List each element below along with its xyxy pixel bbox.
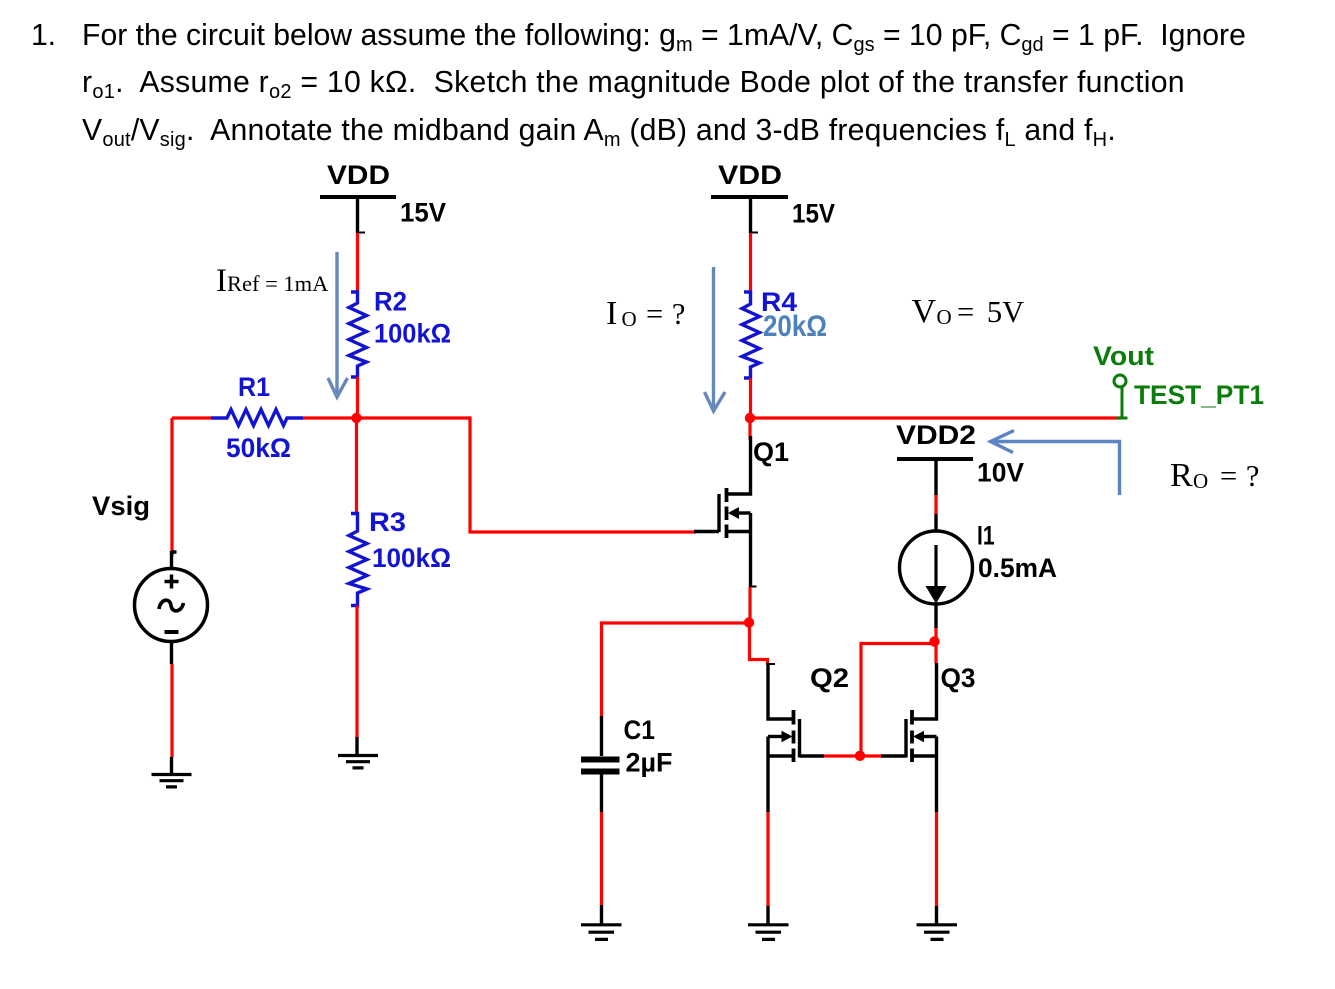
ground (C1) <box>581 925 622 940</box>
svg-text:I1: I1 <box>977 521 995 551</box>
Q1 source pin tick <box>751 586 757 588</box>
wire node C to Q2 drain <box>750 623 768 665</box>
Q2 source vertical <box>766 737 769 813</box>
wire VDD1 to R2 <box>356 233 359 292</box>
ground lead (C1) <box>600 905 603 924</box>
Q2 source lead <box>768 754 793 757</box>
resistor R4 <box>742 292 760 378</box>
ground lead (Q2) <box>766 906 769 924</box>
svg-text:V: V <box>912 293 937 330</box>
wire node B to Vout (output net) <box>750 416 1122 419</box>
capacitor C1 <box>581 716 620 812</box>
Q3 drain lead <box>913 663 937 719</box>
svg-text:Q3: Q3 <box>941 663 976 693</box>
svg-text:O: O <box>937 305 952 329</box>
Q1 bulk lead <box>738 511 751 514</box>
wire Q1 source to node C <box>748 587 751 622</box>
power symbol VDD2 bar <box>897 457 973 461</box>
wire R2 to node A <box>356 377 359 414</box>
wire R4 to node B <box>749 378 752 415</box>
svg-text:2µF: 2µF <box>626 748 673 778</box>
Q3 source vertical <box>935 737 938 813</box>
Q3 bulk arrow <box>913 731 924 743</box>
node C junction dot <box>744 617 754 627</box>
resistor R3 <box>349 514 367 606</box>
svg-text:VDD2: VDD2 <box>896 420 976 450</box>
Q2 drain pin tick <box>768 663 775 665</box>
transistor Q1 <box>694 436 757 587</box>
Q1 source vertical <box>749 513 752 587</box>
wire I1 to Q3 drain (node E) <box>934 628 937 663</box>
C1 top lead <box>600 716 603 756</box>
I1 top lead <box>934 514 937 531</box>
svg-text:Vsig: Vsig <box>92 491 150 521</box>
resistor R1 <box>211 410 303 426</box>
wire Q3 source to ground <box>935 812 938 906</box>
svg-text:Vout/Vsig. Annotate the midba: Vout/Vsig. Annotate the midband gain Am … <box>82 114 1116 151</box>
svg-text:15V: 15V <box>400 198 446 228</box>
svg-text:I: I <box>606 295 617 332</box>
Q1 bulk arrow <box>728 507 739 519</box>
svg-text:0.5mA: 0.5mA <box>978 553 1057 583</box>
I1 bottom lead <box>934 604 937 628</box>
output resistance arrow (RO) <box>991 431 1120 496</box>
svg-text:ro1. Assume ro2 = 10 kΩ. Ske: ro1. Assume ro2 = 10 kΩ. Sketch the magn… <box>82 66 1185 103</box>
svg-text:= ?: = ? <box>1220 459 1259 493</box>
node B junction dot <box>745 413 755 423</box>
Q2 channel segments <box>792 710 796 762</box>
svg-text:For the circuit below assume t: For the circuit below assume the followi… <box>82 19 1246 56</box>
svg-text:C1: C1 <box>624 715 656 745</box>
current source I1 circle <box>900 531 973 604</box>
current source I1 arrow <box>934 545 937 588</box>
svg-text:R1: R1 <box>238 372 270 402</box>
ground (Q2) <box>748 925 789 940</box>
svg-text:VDD: VDD <box>327 160 390 190</box>
svg-text:Q1: Q1 <box>753 437 789 467</box>
test point TEST_PT1 circle <box>1114 375 1126 387</box>
svg-text:= 5V: = 5V <box>957 295 1024 329</box>
wire VDD2 to I1 <box>934 495 937 514</box>
Q1 gate lead <box>694 530 719 533</box>
power symbol VDD (left) pin tick <box>357 232 365 234</box>
Q2 bulk lead <box>768 735 782 738</box>
wire node C to C1 <box>602 623 750 718</box>
wire C1 to ground <box>600 812 603 905</box>
power symbol VDD (left) bar <box>320 195 396 199</box>
current arrow IO <box>705 267 726 411</box>
wire node B to Q1 drain <box>748 418 751 440</box>
Q3 source lead <box>913 754 937 757</box>
svg-text:= ?: = ? <box>646 297 685 331</box>
wire R1 left lead <box>172 416 211 419</box>
svg-text:15V: 15V <box>792 199 835 229</box>
C1 plate 2 <box>581 769 620 775</box>
power symbol VDD (right) bar <box>711 195 788 199</box>
svg-text:100kΩ: 100kΩ <box>372 543 451 573</box>
wire R1 to Vsig <box>170 418 173 556</box>
power symbol VDD (right) stub <box>749 197 752 233</box>
ground (Vsig) <box>152 775 192 787</box>
node D junction dot <box>855 751 865 761</box>
transistor Q3 <box>881 663 937 812</box>
svg-text:Vout: Vout <box>1093 341 1154 371</box>
svg-text:O: O <box>1193 469 1208 493</box>
svg-text:1.: 1. <box>31 19 56 52</box>
wire VDD2sym to R4 <box>749 233 752 292</box>
Q2 gate lead <box>800 754 825 757</box>
svg-text:100kΩ: 100kΩ <box>374 319 451 349</box>
wire node A to Q1 gate <box>303 418 696 532</box>
Q3 bulk lead <box>924 735 937 738</box>
svg-text:R: R <box>1170 457 1193 494</box>
wire node D up to node E <box>861 644 934 757</box>
source Vsig minus sign <box>165 630 179 634</box>
wire Q2 gate to node D <box>824 754 882 757</box>
resistor R2 <box>349 292 367 377</box>
Q1 drain lead <box>727 436 751 494</box>
current arrow IRef <box>328 252 348 397</box>
Q2 drain lead <box>768 663 793 719</box>
node E junction dot <box>929 636 939 646</box>
ground lead (Vsig) <box>170 757 173 774</box>
source Vsig circle <box>135 569 208 642</box>
ground (R3) <box>338 756 378 768</box>
power symbol VDD2 stub <box>934 459 937 495</box>
wire R3 to ground <box>355 606 358 738</box>
Q3 channel segments <box>910 710 914 762</box>
Vsig top black lead <box>172 551 177 569</box>
C1 bottom lead <box>600 775 603 813</box>
svg-text:VDD: VDD <box>718 160 782 190</box>
node A junction dot <box>351 413 361 423</box>
test point TEST_PT1 stem <box>1117 387 1128 418</box>
Q3 gate bar <box>904 719 907 758</box>
svg-text:50kΩ: 50kΩ <box>226 433 291 463</box>
Q1 source lead <box>727 530 751 533</box>
Vsig bottom black lead <box>170 641 173 664</box>
C1 plate 1 <box>581 757 620 763</box>
wire node A to R3 <box>355 418 358 514</box>
Q2 bulk arrow <box>782 731 793 743</box>
Q2 gate bar <box>798 719 801 758</box>
svg-text:R2: R2 <box>374 287 407 317</box>
wire Q2 source to ground <box>766 812 769 906</box>
source Vsig sine tilde <box>159 600 184 611</box>
svg-text:10V: 10V <box>977 458 1024 488</box>
Q1 channel segments <box>725 488 729 538</box>
Q3 gate lead <box>881 754 906 757</box>
ground lead (Q3) <box>935 906 938 924</box>
wire Vsig to ground <box>170 664 173 757</box>
svg-text:R3: R3 <box>369 507 406 537</box>
svg-text:TEST_PT1: TEST_PT1 <box>1134 380 1264 410</box>
svg-text:IRef = 1mA: IRef = 1mA <box>216 263 329 299</box>
svg-text:O: O <box>622 307 637 331</box>
ground (Q3) <box>917 925 958 940</box>
transistor Q2 (mirrored NMOS) <box>768 663 824 812</box>
power symbol VDD (right) pin tick <box>750 232 758 234</box>
source Vsig plus sign <box>165 575 179 589</box>
svg-text:20kΩ: 20kΩ <box>763 310 827 343</box>
power symbol VDD (left) stub <box>356 197 359 233</box>
Q1 gate bar <box>717 494 720 532</box>
ground lead (R3) <box>355 737 358 755</box>
svg-text:Q2: Q2 <box>810 663 849 693</box>
